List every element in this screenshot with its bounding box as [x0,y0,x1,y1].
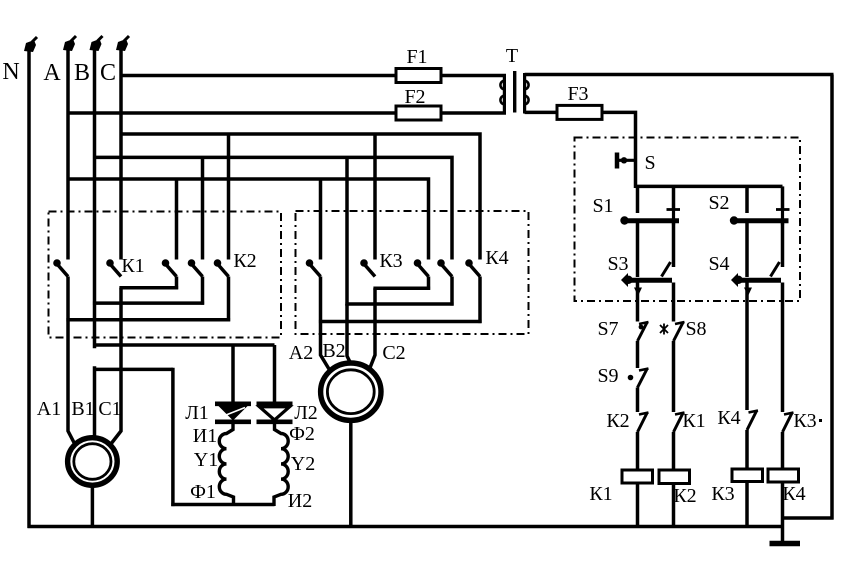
svg-text:A1: A1 [37,398,61,420]
motor M2 stator circle [321,363,381,420]
wire rung1 left segment S1 to S3 [636,223,640,277]
wire thyristor VD1 drop [231,347,235,405]
terminal C (phase C input arrow) [116,39,128,51]
transformer T secondary winding [523,73,526,114]
wire braking return vertical [171,368,175,506]
svg-text:К2: К2 [673,485,696,507]
wire F3 to switch S drop [602,112,636,188]
svg-text:S3: S3 [607,253,628,275]
wire F2 to transformer primary bottom [441,111,506,115]
svg-text:К4: К4 [782,483,805,505]
svg-text:И2: И2 [288,490,312,512]
wire K2-aux contact to coil K1 [636,432,640,470]
contact K4 auxiliary (interlock for K3 coil) [747,411,757,430]
winding Y2 [274,422,288,506]
svg-text:К3: К3 [793,410,816,432]
switch S1 bridge contact [667,208,681,211]
wire winding bottoms bus [171,503,274,507]
motor M1 stator circle [68,438,118,486]
wire W2 phase A to fuse F2 [68,111,396,115]
wire crossover H1' (K3 pole2 out to K4 pole1 out) [373,287,430,291]
wire coil K3 to bottom bus [745,482,749,529]
wire coil K1 to bottom bus [636,483,640,528]
wire K2 pole1 lower stub [175,277,179,290]
svg-text:К3: К3 [379,250,402,272]
contact K1 pole 1 (phase A) [53,259,61,267]
contact K4 pole 1 [414,259,422,267]
wire N vertical feeder x=29 [27,49,31,528]
wire rung2 left S4 to K4 contact [745,283,749,411]
wire crossover H3 (phase A out to K2 pole3 out) [66,318,230,322]
svg-text:К1: К1 [589,483,612,505]
svg-text:B1: B1 [71,398,94,420]
svg-text:S2: S2 [708,192,729,214]
wire motor M1 phase C1 drop [111,288,122,445]
transformer T core [513,71,516,113]
svg-text:S4: S4 [708,253,729,275]
wire bottom neutral bus [28,525,783,529]
svg-text:Y2: Y2 [291,453,315,475]
control panel dashed enclosure [575,138,801,302]
svg-text:T: T [506,45,518,67]
svg-text:S: S [644,152,655,174]
svg-text:Y1: Y1 [194,449,218,471]
wire control rail y=188 [636,185,783,189]
svg-text:Ф1: Ф1 [190,481,216,503]
wire K4 pole3 lower stub [478,277,482,324]
wire rung1 left S3 to S7 [636,283,640,322]
contact K3 pole 1 (phase A) [306,259,314,267]
wire motor M2 phase A2 drop [321,277,331,372]
wire crossover H3' (phase A2 out to K4 pole3 out) [319,320,482,324]
contact K4 pole 2 [437,259,445,267]
contactor block K1/K2 dashed enclosure [49,212,282,338]
switch S3 bridge contact [624,276,632,284]
terminal B (phase B input arrow) [90,39,102,51]
svg-text:B2: B2 [322,340,345,362]
wire rung2 left segment S2 to S4 [745,223,749,277]
contact K2 pole 1 [162,259,170,267]
wire coil K4 to ground node [781,482,785,543]
svg-text:S1: S1 [592,195,613,217]
wire motor M1 phase B1 drop [93,366,97,438]
fuse F2 [396,106,441,120]
wire crossover H2' (phase B2 to K4 pole2 out) [345,302,453,306]
wire rung1 right S3 to S8 [672,283,676,322]
wire rung2 right S4 to K3 contact [781,283,785,413]
contact K2 pole 3 [214,259,222,267]
contact K2 pole 2 [188,259,196,267]
wire motor M2 star point to bus [349,420,353,528]
wire K4 pole2 lower stub [450,277,454,306]
switch S (plug connector) [615,153,620,169]
terminal A (phase A input arrow) [63,39,75,51]
contact S7 (in series with K1 coil) [638,323,648,342]
svg-text:Л2: Л2 [294,402,318,424]
wire braking feed from phase B output [95,343,275,347]
wire W5 phase A distribution y=179 [68,179,429,260]
wire K1-aux contact to coil K2 [672,432,676,470]
svg-text:C2: C2 [382,342,405,364]
wire braking return horizontal to motor B1 [95,368,173,372]
svg-text:B: B [74,60,90,86]
wire phase B vertical (down to braking branch corner) [93,48,97,348]
svg-text:К1: К1 [682,410,705,432]
wire secondary top to right edge [525,73,834,77]
transformer T primary winding [503,74,506,114]
coil K4 [768,469,799,482]
wire rung1 right S8 to K1 contact [672,341,676,412]
fuse F3 [557,105,602,119]
wire crossover H1 (K1 pole2 out to K2 pole1 out) [119,286,178,290]
svg-text:Л1: Л1 [185,402,209,424]
svg-text:C: C [100,60,116,86]
wire K4 pole1 lower stub [427,277,431,290]
svg-text:F1: F1 [406,46,427,68]
coil K3 [732,469,763,482]
svg-text:A2: A2 [289,342,313,364]
wire right edge return to ground node [783,516,834,520]
wire W1 phase C to fuse F1 [121,74,396,78]
contact S8 (in series with K2 coil) [674,323,684,342]
switch S4 bridge contact [734,276,742,284]
svg-text:S9: S9 [597,365,618,387]
wire motor M2 phase C2 drop [370,288,376,369]
svg-text:К4: К4 [485,247,508,269]
wire W4 phase B distribution y=157.4 [95,157,453,259]
svg-text:F3: F3 [567,83,588,105]
contact S9 [638,369,648,388]
svg-text:К2: К2 [606,410,629,432]
wire rung1 left S7 to S9 [636,341,640,368]
wire crossover H2 (phase B to K2 pole2 out) [93,301,204,305]
svg-text:К4: К4 [717,407,740,429]
contact K1 pole 2 (phase C) [106,259,114,267]
wire K2 pole3 lower stub [227,277,231,322]
coil K2 [659,470,690,484]
wire feeder A2 column (from W5) [319,179,323,260]
wire feeder to K2 pole a (from W5 phase A) [175,179,179,260]
svg-text:N: N [2,59,19,85]
wire rung1 right segment S1 to S3 [672,223,676,267]
switch S2 bridge contact [776,208,790,211]
ground symbol [770,541,801,547]
terminal N (supply input arrow) [24,40,36,52]
wire coil K2 to bottom bus [672,484,676,529]
svg-text:F2: F2 [404,86,425,108]
wire feeder to K2 pole b (from W4 phase B) [201,157,205,259]
wire feeder B2 column (from W4) [345,157,349,305]
thyristor L2 (element Л2) [257,401,293,406]
wire feeder to K2 pole c (from W3 phase C) [227,134,231,260]
fuse F1 [396,69,441,83]
wire K2 pole2 lower stub [201,277,205,305]
svg-text:Ф2: Ф2 [289,423,315,445]
contact K4 pole 3 [465,259,473,267]
winding Y1 [219,422,233,506]
wire rung1 left S9 to K2 contact [636,388,640,413]
wire secondary bottom to fuse F3 [525,111,557,115]
wire rung2 left stub above S2 [745,186,749,213]
wire rung1 right stub above S1 [672,186,676,209]
wire K3-aux to coil K4 [781,432,785,469]
wire W3 phase C distribution y=134 [121,134,480,260]
wire phase A vertical upper segment [66,48,70,260]
wire rung2 right segment S2 to S4 [781,223,785,267]
coil K1 [622,470,653,483]
thyristor L1 (element Л1) [215,401,251,406]
wire right edge vertical [830,75,834,520]
svg-text:К2: К2 [233,250,256,272]
wire motor M1 phase A1 drop [68,277,75,445]
wire motor M1 star point to bus [91,485,95,528]
wire thyristor VD2 drop [273,345,277,404]
wire F1 to transformer primary top [441,74,506,78]
svg-text:S8: S8 [685,318,706,340]
svg-text:К3: К3 [711,483,734,505]
contactor block K3/K4 dashed enclosure [296,211,529,334]
contact K1 auxiliary (interlock for K2 coil) [674,413,684,432]
svg-text:S7: S7 [597,318,618,340]
wire feeder C2 column (from W3) [373,134,377,260]
wire rung1 left stub above S1 [636,186,640,213]
contact K3 pole 2 (phase C) [360,259,368,267]
wire phase C vertical upper segment [119,48,123,260]
wire motor M2 phase B2 drop [347,304,351,363]
wire rung2 right stub above S2 [781,186,785,209]
svg-text:C1: C1 [98,398,121,420]
contact K2 auxiliary (interlock for K1 coil) [638,413,648,432]
svg-text:И1: И1 [193,425,217,447]
contact K3 auxiliary (interlock for K4 coil) [783,413,793,432]
svg-text:A: A [43,60,61,86]
svg-text:К1: К1 [121,255,144,277]
wire K4-aux to coil K3 [745,430,749,469]
